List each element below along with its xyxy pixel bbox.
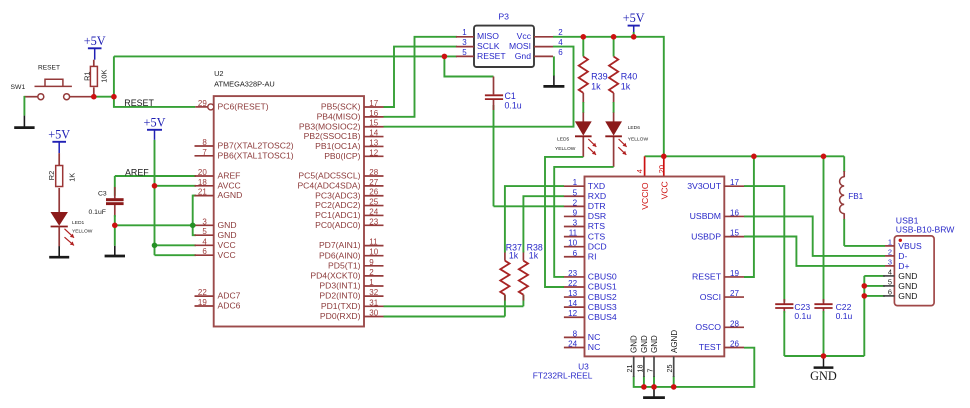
svg-text:21: 21 — [198, 188, 207, 197]
svg-text:MISO: MISO — [477, 31, 499, 41]
svg-text:PC3(ADC3): PC3(ADC3) — [315, 190, 361, 200]
svg-text:PB5(SCK): PB5(SCK) — [321, 102, 361, 112]
svg-text:4: 4 — [635, 169, 644, 173]
svg-text:13: 13 — [568, 289, 578, 298]
svg-text:YELLOW: YELLOW — [628, 136, 649, 142]
svg-text:PC4(ADC4SDA): PC4(ADC4SDA) — [297, 180, 360, 190]
svg-text:5: 5 — [573, 188, 578, 197]
svg-text:8: 8 — [573, 329, 578, 338]
svg-text:31: 31 — [369, 298, 378, 307]
svg-text:MOSI: MOSI — [509, 41, 531, 51]
svg-text:19: 19 — [730, 269, 740, 278]
svg-text:PC5(ADC5SCL): PC5(ADC5SCL) — [298, 171, 360, 181]
svg-text:PC0(ADC0): PC0(ADC0) — [315, 220, 361, 230]
svg-text:CTS: CTS — [588, 231, 606, 241]
svg-text:5: 5 — [888, 278, 892, 287]
svg-text:18: 18 — [198, 178, 207, 187]
svg-text:CBUS2: CBUS2 — [588, 292, 617, 302]
svg-text:YELLOW: YELLOW — [72, 229, 93, 235]
svg-text:6: 6 — [573, 249, 578, 258]
svg-text:PD2(INT0): PD2(INT0) — [319, 291, 360, 301]
svg-text:23: 23 — [568, 269, 578, 278]
svg-text:16: 16 — [369, 109, 378, 118]
svg-text:GND: GND — [810, 369, 837, 383]
svg-text:9: 9 — [573, 208, 578, 217]
svg-text:GND: GND — [898, 271, 917, 281]
svg-text:28: 28 — [730, 319, 740, 328]
svg-text:PD0(RXD): PD0(RXD) — [320, 311, 361, 321]
svg-text:27: 27 — [730, 289, 740, 298]
svg-text:AREF: AREF — [125, 167, 149, 177]
svg-text:VCC: VCC — [218, 250, 236, 260]
svg-text:2: 2 — [369, 268, 374, 277]
svg-text:RESET: RESET — [38, 64, 60, 71]
svg-text:PD4(XCKT0): PD4(XCKT0) — [310, 271, 360, 281]
svg-text:SCLK: SCLK — [477, 41, 500, 51]
svg-text:13: 13 — [369, 138, 378, 147]
svg-text:VBUS: VBUS — [898, 241, 922, 251]
svg-text:1k: 1k — [621, 82, 631, 92]
svg-text:PB7(XTAL2TOSC2): PB7(XTAL2TOSC2) — [218, 141, 294, 151]
svg-text:+5V: +5V — [144, 115, 166, 129]
svg-text:OSCO: OSCO — [695, 322, 721, 332]
svg-text:1: 1 — [888, 238, 892, 247]
svg-text:12: 12 — [568, 309, 578, 318]
svg-text:2: 2 — [573, 198, 578, 207]
svg-text:10K: 10K — [100, 69, 109, 82]
svg-text:AVCC: AVCC — [218, 180, 241, 190]
svg-text:27: 27 — [369, 178, 378, 187]
svg-text:3: 3 — [462, 38, 467, 47]
svg-text:+5V: +5V — [48, 127, 70, 141]
svg-text:FT232RL-REEL: FT232RL-REEL — [533, 370, 593, 380]
svg-text:RXD: RXD — [588, 191, 606, 201]
svg-text:C3: C3 — [98, 190, 107, 197]
svg-text:3: 3 — [888, 258, 892, 267]
svg-text:1k: 1k — [591, 82, 601, 92]
svg-text:3: 3 — [573, 219, 578, 228]
svg-text:3V3OUT: 3V3OUT — [687, 181, 721, 191]
svg-text:29: 29 — [198, 99, 207, 108]
svg-text:ADC7: ADC7 — [218, 291, 241, 301]
svg-text:11: 11 — [569, 229, 578, 238]
svg-text:PD6(AIN0): PD6(AIN0) — [319, 250, 361, 260]
svg-text:Vcc: Vcc — [517, 31, 532, 41]
svg-text:GND: GND — [218, 230, 237, 240]
svg-text:D-: D- — [898, 251, 907, 261]
svg-text:17: 17 — [369, 99, 378, 108]
svg-text:24: 24 — [568, 339, 578, 348]
svg-text:SW1: SW1 — [11, 84, 26, 91]
svg-text:25: 25 — [369, 198, 378, 207]
svg-text:CBUS4: CBUS4 — [588, 312, 617, 322]
svg-text:6: 6 — [558, 48, 563, 57]
svg-text:3: 3 — [202, 217, 207, 226]
svg-text:D+: D+ — [898, 261, 909, 271]
svg-text:25: 25 — [665, 365, 674, 373]
svg-text:22: 22 — [568, 279, 578, 288]
svg-text:19: 19 — [198, 298, 207, 307]
svg-text:USBDP: USBDP — [691, 231, 721, 241]
svg-text:LED5: LED5 — [557, 136, 570, 142]
svg-text:VCC: VCC — [218, 240, 236, 250]
svg-text:PB4(MISO): PB4(MISO) — [317, 111, 361, 121]
svg-text:ATMEGA328P-AU: ATMEGA328P-AU — [214, 79, 275, 88]
svg-text:P3: P3 — [498, 12, 509, 22]
svg-text:CBUS1: CBUS1 — [588, 282, 617, 292]
svg-text:VCCIO: VCCIO — [640, 182, 650, 210]
svg-text:2: 2 — [558, 28, 563, 37]
svg-text:CBUS0: CBUS0 — [588, 272, 617, 282]
svg-text:PC2(ADC2): PC2(ADC2) — [315, 200, 361, 210]
svg-text:4: 4 — [558, 38, 563, 47]
svg-text:USB-B10-BRW: USB-B10-BRW — [896, 225, 955, 235]
svg-text:15: 15 — [369, 119, 378, 128]
svg-text:PD5(T1): PD5(T1) — [328, 260, 361, 270]
svg-text:16: 16 — [730, 208, 740, 217]
svg-text:R40: R40 — [621, 72, 638, 82]
svg-text:AGND: AGND — [218, 190, 243, 200]
svg-text:+5V: +5V — [84, 34, 106, 48]
svg-text:20: 20 — [657, 165, 666, 173]
svg-text:6: 6 — [888, 288, 892, 297]
svg-text:CBUS3: CBUS3 — [588, 302, 617, 312]
svg-text:DCD: DCD — [588, 241, 607, 251]
svg-text:PB6(XTAL1TOSC1): PB6(XTAL1TOSC1) — [218, 150, 294, 160]
svg-text:DSR: DSR — [588, 211, 606, 221]
svg-text:15: 15 — [730, 229, 740, 238]
svg-text:PB0(ICP): PB0(ICP) — [324, 151, 360, 161]
svg-text:USBDM: USBDM — [690, 211, 721, 221]
svg-text:GND: GND — [650, 335, 659, 353]
svg-text:PC6(RESET): PC6(RESET) — [218, 102, 269, 112]
svg-text:OSCI: OSCI — [700, 292, 721, 302]
svg-text:PB2(SSOC1B): PB2(SSOC1B) — [304, 131, 361, 141]
svg-text:1: 1 — [462, 28, 467, 37]
svg-text:1: 1 — [573, 178, 578, 187]
svg-text:AGND: AGND — [670, 330, 679, 353]
svg-text:GND: GND — [218, 220, 237, 230]
svg-text:PC1(ADC1): PC1(ADC1) — [315, 210, 361, 220]
svg-text:8: 8 — [202, 138, 207, 147]
svg-text:0.1u: 0.1u — [505, 101, 522, 111]
svg-text:28: 28 — [369, 168, 378, 177]
svg-text:23: 23 — [369, 217, 378, 226]
svg-text:PD1(TXD): PD1(TXD) — [321, 301, 361, 311]
svg-text:10: 10 — [369, 248, 378, 257]
svg-text:AREF: AREF — [218, 171, 241, 181]
svg-text:4: 4 — [202, 237, 207, 246]
svg-text:ADC6: ADC6 — [218, 301, 241, 311]
svg-text:30: 30 — [369, 309, 378, 318]
svg-text:24: 24 — [369, 207, 378, 216]
svg-text:R39: R39 — [591, 72, 608, 82]
svg-text:GND: GND — [898, 281, 917, 291]
svg-text:Gnd: Gnd — [515, 51, 531, 61]
svg-text:11: 11 — [369, 238, 378, 247]
svg-text:TXD: TXD — [588, 181, 605, 191]
svg-text:1K: 1K — [68, 173, 77, 182]
svg-text:18: 18 — [635, 365, 644, 373]
svg-text:10: 10 — [568, 239, 578, 248]
svg-text:0.1uF: 0.1uF — [89, 209, 106, 216]
svg-text:RESET: RESET — [124, 98, 154, 108]
svg-text:U2: U2 — [214, 69, 223, 78]
svg-text:14: 14 — [369, 129, 378, 138]
svg-text:17: 17 — [730, 178, 740, 187]
svg-text:5: 5 — [462, 48, 467, 57]
svg-text:FB1: FB1 — [848, 192, 863, 201]
svg-text:NC: NC — [588, 332, 601, 342]
svg-text:26: 26 — [730, 339, 740, 348]
svg-text:GND: GND — [630, 335, 639, 353]
svg-text:RESET: RESET — [477, 51, 506, 61]
svg-text:PD3(INT1): PD3(INT1) — [319, 281, 360, 291]
svg-text:6: 6 — [202, 247, 207, 256]
svg-text:4: 4 — [888, 268, 892, 277]
svg-text:GND: GND — [640, 335, 649, 353]
svg-text:GND: GND — [898, 291, 917, 301]
svg-text:1k: 1k — [509, 251, 519, 261]
svg-text:1: 1 — [369, 278, 374, 287]
svg-text:1k: 1k — [529, 251, 539, 261]
svg-text:26: 26 — [369, 188, 378, 197]
svg-text:0.1u: 0.1u — [836, 311, 853, 321]
svg-text:YELLOW: YELLOW — [555, 146, 576, 152]
svg-text:21: 21 — [625, 365, 634, 373]
svg-text:22: 22 — [198, 288, 207, 297]
svg-text:RI: RI — [588, 251, 597, 261]
svg-text:32: 32 — [369, 288, 378, 297]
svg-text:5: 5 — [202, 227, 207, 236]
svg-text:7: 7 — [646, 369, 655, 373]
svg-text:RTS: RTS — [588, 221, 605, 231]
svg-text:DTR: DTR — [588, 201, 606, 211]
svg-text:NC: NC — [588, 342, 601, 352]
svg-text:LED1: LED1 — [72, 220, 85, 226]
svg-text:+5V: +5V — [623, 11, 645, 25]
svg-text:PB1(OC1A): PB1(OC1A) — [315, 141, 361, 151]
svg-text:14: 14 — [568, 299, 578, 308]
svg-text:9: 9 — [369, 258, 374, 267]
svg-text:2: 2 — [888, 248, 892, 257]
svg-text:PD7(AIN1): PD7(AIN1) — [319, 240, 361, 250]
svg-text:LED6: LED6 — [628, 125, 641, 131]
svg-text:VCC: VCC — [660, 181, 670, 199]
svg-text:20: 20 — [198, 168, 207, 177]
svg-text:0.1u: 0.1u — [794, 311, 811, 321]
svg-text:PB3(MOSIOC2): PB3(MOSIOC2) — [299, 121, 361, 131]
svg-text:RESET: RESET — [692, 272, 722, 282]
svg-text:R1: R1 — [82, 71, 91, 80]
svg-text:7: 7 — [202, 148, 207, 157]
svg-text:R2: R2 — [47, 171, 56, 180]
svg-text:12: 12 — [369, 148, 378, 157]
svg-text:TEST: TEST — [699, 342, 722, 352]
